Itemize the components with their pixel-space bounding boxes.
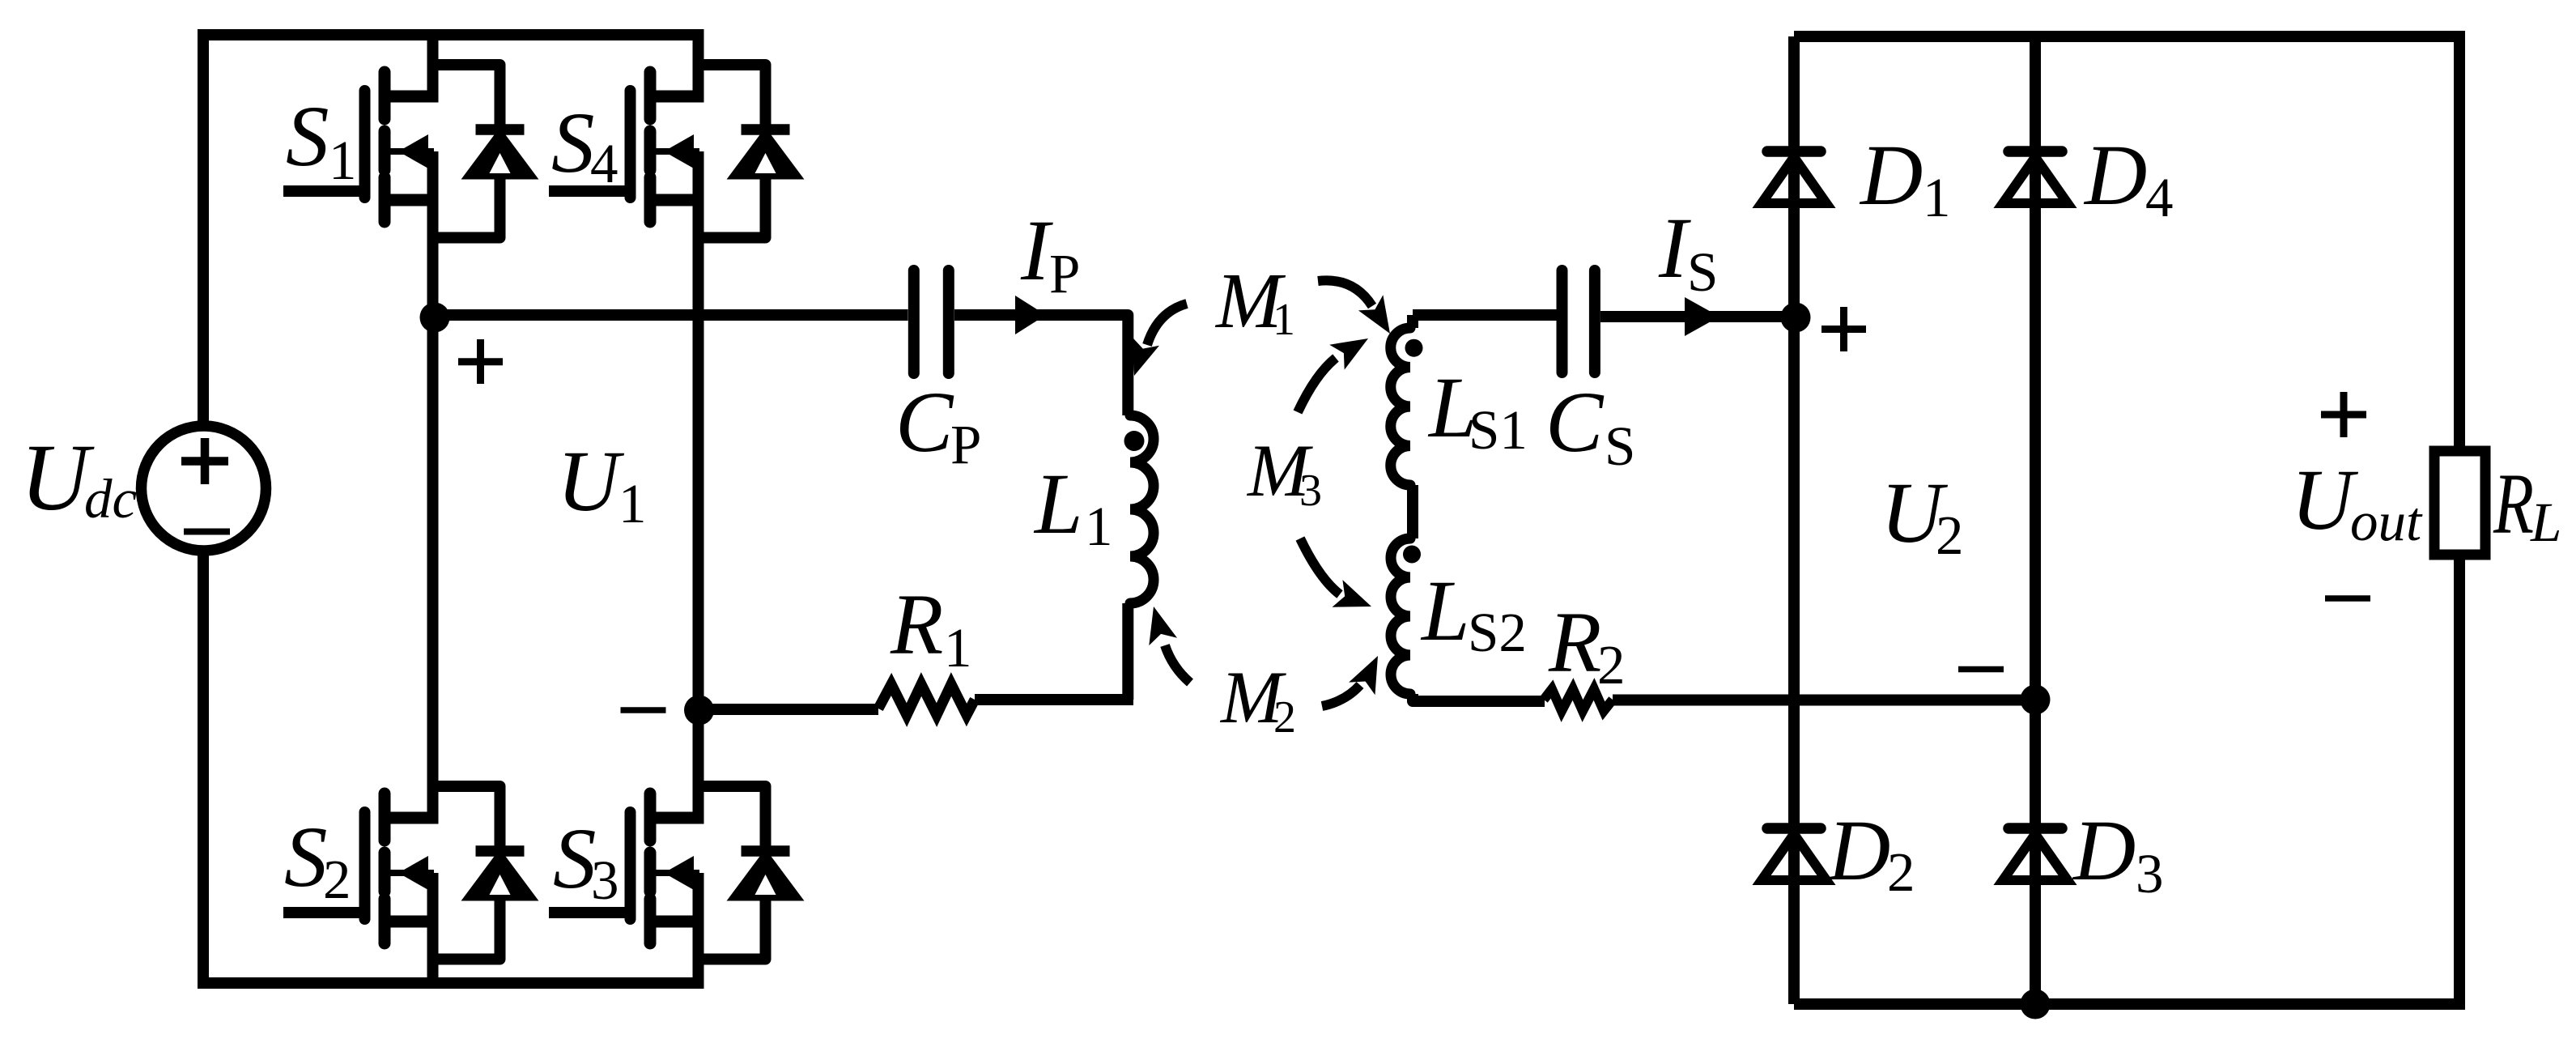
svg-text:1: 1 xyxy=(329,130,357,191)
svg-text:S: S xyxy=(551,96,595,191)
svg-text:L: L xyxy=(1420,564,1470,659)
svg-text:R: R xyxy=(1548,595,1601,691)
svg-text:3: 3 xyxy=(591,849,619,911)
svg-text:1: 1 xyxy=(1923,167,1951,228)
svg-text:3: 3 xyxy=(2136,843,2164,904)
svg-text:S: S xyxy=(1605,415,1635,477)
svg-text:U: U xyxy=(2291,453,2359,548)
svg-text:1: 1 xyxy=(1273,295,1295,345)
svg-text:1: 1 xyxy=(1085,496,1113,557)
svg-text:P: P xyxy=(950,414,981,475)
svg-text:D: D xyxy=(1826,803,1890,899)
svg-text:D: D xyxy=(1859,128,1923,223)
svg-text:L: L xyxy=(1033,457,1083,552)
svg-text:C: C xyxy=(895,375,954,470)
svg-text:I: I xyxy=(1020,203,1053,299)
svg-text:2: 2 xyxy=(1887,841,1915,903)
svg-text:D: D xyxy=(2072,803,2136,899)
svg-text:S: S xyxy=(1687,241,1718,303)
svg-text:1: 1 xyxy=(944,617,972,679)
svg-text:4: 4 xyxy=(2145,167,2174,228)
svg-text:S2: S2 xyxy=(1468,602,1527,663)
svg-text:dc: dc xyxy=(84,468,137,530)
svg-text:S1: S1 xyxy=(1469,399,1528,461)
svg-text:2: 2 xyxy=(323,849,351,910)
svg-text:2: 2 xyxy=(1597,634,1626,696)
svg-text:U: U xyxy=(557,434,625,530)
svg-text:R: R xyxy=(890,577,943,673)
svg-text:1: 1 xyxy=(618,473,647,534)
svg-text:2: 2 xyxy=(1273,692,1296,743)
svg-text:S: S xyxy=(553,811,597,907)
svg-text:out: out xyxy=(2350,491,2423,552)
svg-text:L: L xyxy=(2530,492,2561,553)
svg-text:2: 2 xyxy=(1936,504,1964,566)
svg-text:I: I xyxy=(1658,201,1691,296)
svg-text:C: C xyxy=(1545,375,1605,470)
svg-text:4: 4 xyxy=(590,133,618,194)
svg-text:S: S xyxy=(286,89,329,185)
svg-text:P: P xyxy=(1049,243,1080,304)
svg-text:S: S xyxy=(284,810,328,905)
svg-text:3: 3 xyxy=(1299,466,1322,516)
svg-text:R: R xyxy=(2493,457,2534,552)
svg-text:D: D xyxy=(2083,128,2147,223)
